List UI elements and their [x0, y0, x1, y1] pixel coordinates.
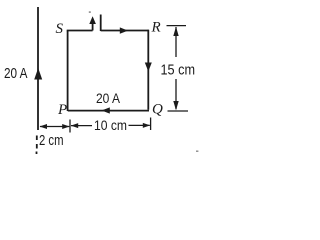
- dimension line 10 cm (left part): [71, 125, 92, 127]
- scan speck top: [89, 11, 91, 13]
- current arrow on long wire (up): [34, 68, 42, 80]
- extension tick below Q: [150, 118, 152, 131]
- loop side SP (left): [67, 31, 69, 112]
- svg-text:P: P: [57, 102, 67, 118]
- dimension top tick (15 cm): [167, 25, 187, 27]
- svg-text:S: S: [56, 21, 64, 37]
- svg-text:20 A: 20 A: [96, 91, 120, 106]
- wire dash-dot continuation: [36, 136, 38, 155]
- svg-text:2 cm: 2 cm: [39, 133, 64, 149]
- svg-text:R: R: [151, 20, 161, 36]
- svg-text:20 A: 20 A: [4, 65, 28, 82]
- right lead stub: [100, 15, 102, 32]
- current arrow on left lead (up): [89, 16, 96, 24]
- dim arrow 10 cm right: [143, 123, 150, 128]
- current arrow on top side (right): [120, 27, 128, 33]
- current arrow on bottom side (left): [102, 107, 110, 113]
- loop top segment lead to R: [101, 30, 149, 32]
- shared extension tick below P: [69, 120, 71, 133]
- dim arrow 15 cm up: [173, 27, 178, 36]
- loop side RQ (right): [147, 30, 149, 110]
- dim arrow 10 cm left: [71, 123, 78, 128]
- left lead stub: [92, 21, 94, 31]
- current arrow on right side (down): [145, 63, 152, 72]
- dim arrow 2 cm right: [62, 124, 69, 129]
- svg-text:Q: Q: [152, 102, 163, 118]
- long straight wire: [37, 7, 39, 130]
- svg-text:15 cm: 15 cm: [161, 61, 196, 78]
- loop bottom side QP: [68, 110, 149, 112]
- dimension bottom tick (15 cm): [168, 110, 189, 112]
- dimension line 2 cm: [40, 126, 69, 128]
- svg-text:10 cm: 10 cm: [94, 117, 127, 133]
- dim arrow 2 cm left: [40, 124, 48, 129]
- dimension line 10 cm (right part): [129, 124, 150, 126]
- scan speck bottom right: [196, 151, 198, 152]
- dimension line 15 cm (upper part): [175, 27, 177, 57]
- dim arrow 15 cm down: [173, 101, 178, 110]
- loop top segment S to lead: [67, 30, 93, 32]
- dimension line 15 cm (lower part): [175, 79, 177, 109]
